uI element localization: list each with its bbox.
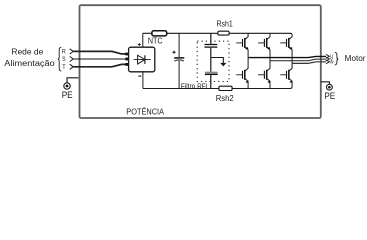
wire output U xyxy=(248,56,326,57)
brace for R S T xyxy=(58,47,61,71)
svg-text:Alimentação: Alimentação xyxy=(4,59,55,68)
svg-text:Motor: Motor xyxy=(345,54,366,63)
svg-text:Filtro RFI: Filtro RFI xyxy=(181,83,208,90)
rectifier diode xyxy=(134,55,151,64)
brace motor xyxy=(335,52,338,65)
shunt resistor Rsh1 xyxy=(218,31,229,35)
chassis arrow of RFI filter xyxy=(211,58,227,67)
thermistor NTC xyxy=(152,31,167,36)
DC bus electrolytic capacitor xyxy=(172,33,184,88)
svg-text:S: S xyxy=(62,56,66,63)
wire DC- drop xyxy=(142,72,144,89)
RFI filter dashed box xyxy=(197,41,229,81)
wire DC+ top bus xyxy=(143,33,292,35)
svg-text:R: R xyxy=(62,49,66,56)
output arrow V xyxy=(326,57,329,61)
IGBT Q4 bottom leg2 xyxy=(258,50,270,89)
power section enclosure box xyxy=(80,5,321,118)
IGBT Q1 top leg1 xyxy=(236,33,248,50)
input terminal chevron T xyxy=(70,64,74,69)
rectifier input pin R xyxy=(125,53,128,56)
svg-text:POTÊNCIA: POTÊNCIA xyxy=(126,107,164,116)
output arrow U xyxy=(326,54,329,58)
svg-text:Rede de: Rede de xyxy=(11,47,43,56)
wire input T xyxy=(73,64,128,66)
rectifier block xyxy=(129,47,155,72)
wire DC- bottom bus xyxy=(143,87,292,89)
output arrow W xyxy=(326,60,329,64)
IGBT Q6 bottom leg3 xyxy=(280,50,292,87)
input terminal chevron R xyxy=(70,49,74,54)
wire input R xyxy=(73,51,128,54)
shunt resistor Rsh2 xyxy=(219,86,232,90)
svg-text:NTC: NTC xyxy=(148,36,163,46)
minus sign at rectifier DC- xyxy=(138,75,141,77)
svg-text:Rsh1: Rsh1 xyxy=(217,18,233,28)
svg-text:PE: PE xyxy=(62,90,73,100)
svg-text:W: W xyxy=(330,59,335,64)
input terminal chevron S xyxy=(70,56,74,61)
RFI capacitor lower xyxy=(205,72,218,88)
IGBT Q3 top leg2 xyxy=(258,33,270,50)
PE ground left xyxy=(62,78,79,100)
plus sign at rectifier DC+ xyxy=(138,43,141,46)
wire DC+ riser xyxy=(142,33,144,47)
svg-text:Rsh2: Rsh2 xyxy=(216,93,234,103)
wire output W xyxy=(292,62,326,64)
IGBT Q5 top leg3 xyxy=(280,35,292,50)
PE ground right xyxy=(321,82,335,101)
IGBT Q2 bottom leg1 xyxy=(236,50,248,89)
RFI capacitor upper xyxy=(205,33,218,71)
svg-text:PE: PE xyxy=(324,91,335,101)
rectifier input pin S xyxy=(125,58,128,61)
wire input S xyxy=(73,58,128,60)
wire output V xyxy=(270,59,326,61)
label Rede de Alimentação xyxy=(4,47,55,68)
rectifier input pin T xyxy=(125,63,128,66)
svg-text:T: T xyxy=(62,64,66,71)
